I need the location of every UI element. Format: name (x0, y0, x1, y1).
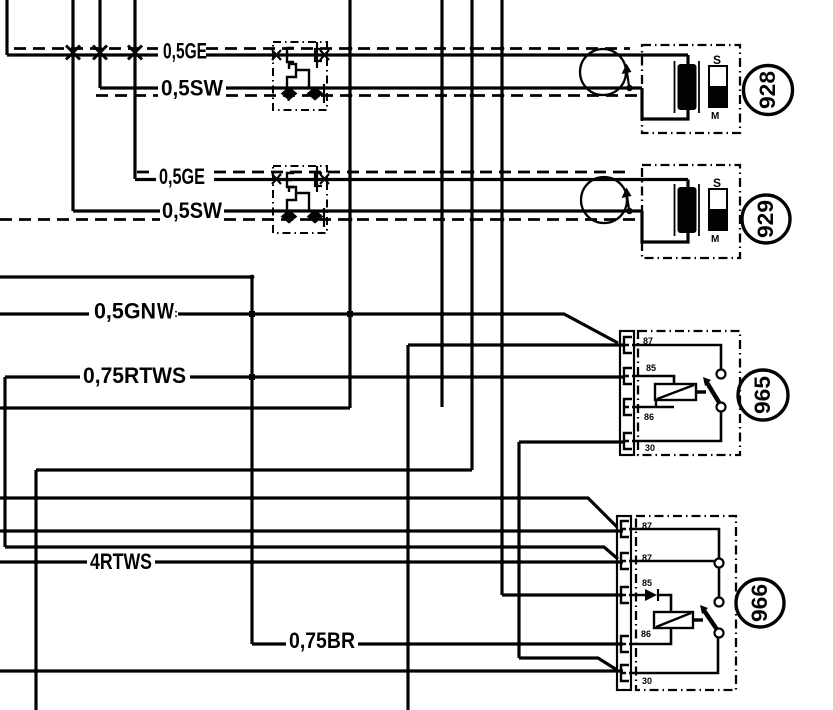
contact circle 965 top (717, 370, 726, 379)
terminal 966 pin3 (621, 587, 629, 603)
wire vertical bus L (x=36 from line470 to bottom) (34, 470, 37, 710)
connector SW1 diamond right (309, 88, 322, 99)
lever 966 (703, 609, 718, 631)
wire 0,5SW lower dashed (0, 218, 638, 221)
junction blob RTWS/bus E (249, 374, 255, 380)
connector GE1 female (287, 48, 294, 62)
wire 965 pin4 to pivot (632, 412, 721, 441)
contact circle 965 pivot (717, 403, 726, 412)
wire vertical bus A (x=7 top) (5, 0, 8, 55)
relay 966 (617, 516, 784, 690)
junction bulges at crossings (3, 46, 522, 673)
wire 966 pin1 to contact (629, 529, 719, 558)
thermo switch 929 (709, 189, 727, 230)
connector SW2 diamond left (283, 211, 296, 222)
connector box X2 (273, 166, 327, 233)
connector group X2 (lower pair) (272, 166, 329, 233)
svg-text:965: 965 (750, 376, 775, 414)
wire vertical bus C (x=100 top to SW1) (98, 0, 101, 88)
svg-text:W: W (157, 299, 174, 324)
wire 0,75RTWS (5, 375, 624, 378)
coil bar 965 (696, 390, 706, 394)
wire vertical bus H (x=472 top to line470) (470, 0, 473, 470)
connector group X1 (upper pair) (272, 42, 329, 110)
arrow 929 (626, 208, 632, 214)
component box 928 (642, 45, 740, 133)
junction blob GN/bus F (347, 311, 353, 317)
terminal 966 pin2 (621, 553, 629, 569)
coil bar 966 (693, 618, 703, 622)
designator circle 929 (742, 195, 790, 243)
svg-text:966: 966 (747, 584, 772, 622)
svg-text:87: 87 (642, 553, 652, 564)
contact circle 966 pivot (715, 629, 724, 638)
terminal 965 pin4 (624, 433, 632, 449)
connector GE2 female (287, 173, 294, 187)
wire 0,5GE upper solid (7, 55, 688, 66)
svg-text:M: M (711, 234, 719, 245)
svg-text:929: 929 (753, 200, 778, 238)
wire line442 to relay 965 pin30 (519, 440, 624, 443)
wire 0,5SW upper solid (100, 88, 688, 119)
loop symbol 928 (580, 49, 626, 95)
wire 0,5GE upper dashed (14, 47, 630, 50)
designator circle 928 (744, 66, 793, 115)
wire 0,75BR (252, 642, 623, 645)
thermo switch 928 (709, 66, 727, 107)
loop symbol 929 (581, 177, 627, 223)
wire line671 (0, 669, 623, 672)
wire vertical bus F (x=350 top to line407) (348, 0, 351, 408)
relay coil 965 (655, 384, 696, 400)
connector GE2 tick left (272, 174, 281, 184)
component box 929 (642, 165, 740, 258)
junction X at GE1/bus B (66, 46, 80, 60)
svg-text:0,5SW: 0,5SW (161, 76, 223, 101)
wire vertical bus M (x=5 RTWS drop) (3, 377, 6, 547)
svg-text:928: 928 (755, 71, 780, 109)
connector GE1 tick right (320, 50, 329, 60)
svg-text:85: 85 (642, 578, 653, 589)
heater element 928 (580, 45, 793, 133)
relay coil 966 (654, 612, 693, 628)
socket strip 966 (617, 516, 631, 690)
connector SW1 contact left (283, 90, 294, 101)
connector GE1 tick left (272, 50, 281, 60)
wire vertical bus J (x=408 from line345 to bottom) (406, 345, 409, 710)
designator circle 966 (736, 579, 784, 627)
svg-text:30: 30 (642, 676, 652, 687)
wire vertical bus G (x=442 top to line407) (440, 0, 443, 407)
wire vertical bus K (x=519 from line442 to line658) (517, 442, 520, 658)
heater element 929 (581, 165, 790, 258)
svg-text:86: 86 (641, 629, 651, 640)
svg-text:0,75BR: 0,75BR (289, 628, 355, 653)
svg-text:0,5GE: 0,5GE (159, 164, 205, 189)
terminal 965 pin3 (624, 399, 632, 415)
connector box X1 (273, 42, 327, 110)
element bar 928 (678, 64, 697, 110)
wire 966 pin2 to contact (629, 560, 714, 563)
terminal 966 pin4 (621, 636, 629, 652)
svg-text:S: S (713, 53, 721, 67)
wire vertical bus D (x=135 top to GE2) (133, 0, 136, 179)
wire 4RTWS (0, 560, 623, 563)
wire line277 top feed (0, 275, 252, 278)
wire 0,5GE lower solid (135, 180, 688, 190)
component box 965 (638, 331, 740, 455)
element plates 928 (675, 61, 700, 113)
wire 965 pin2 to coil (632, 376, 674, 384)
connector GE2 male (315, 166, 322, 192)
svg-text:0,5GE: 0,5GE (163, 39, 207, 64)
svg-text:30: 30 (645, 443, 655, 454)
connector SW2 bar (323, 208, 325, 227)
wire line547 (5, 547, 618, 559)
wire 965 pin1 to contact (632, 345, 721, 369)
junction X at GE1/bus C (93, 46, 107, 60)
svg-text:0,5SW: 0,5SW (162, 198, 222, 223)
wire line407 (0, 406, 350, 409)
svg-text:0,75RTWS: 0,75RTWS (83, 363, 186, 388)
element plates 929 (675, 184, 700, 236)
wire 0,5GE lower dashed (137, 171, 630, 174)
wire line658 (519, 658, 617, 670)
contact circle 966 top (715, 559, 724, 568)
wire line470 (36, 468, 472, 471)
svg-text:0,5GN: 0,5GN (94, 299, 156, 324)
connector SW1 bar (323, 84, 325, 103)
connector SW1 diamond left (283, 88, 296, 99)
terminal 966 pin5 (621, 665, 629, 681)
connector SW1 bump (287, 64, 309, 88)
component box 966 (636, 516, 736, 690)
wire 965 pin3 (632, 406, 674, 409)
wire 966 pin3 to coil (629, 595, 671, 612)
wire line498 (0, 498, 617, 527)
connector GE2 tick right (320, 174, 329, 184)
svg-text:86: 86 (644, 412, 654, 423)
lever 965 (706, 381, 720, 404)
svg-text:S: S (713, 176, 721, 190)
wire 966 pin5 to pivot (629, 638, 718, 673)
junction X at GE1/bus D (128, 46, 142, 60)
svg-text:85: 85 (646, 363, 657, 374)
relay 965 (620, 331, 788, 455)
wire vertical bus E (x=252 from line277 to BR) (250, 277, 253, 644)
contact circle 966 mid (715, 598, 724, 607)
contact link 966 (718, 568, 721, 597)
element bar 929 (678, 187, 697, 233)
svg-text:M: M (711, 111, 719, 122)
wire 0,5SW upper dashed (96, 94, 638, 97)
socket strip 965 (620, 331, 634, 455)
terminal 965 pin1 (624, 337, 632, 353)
wire 0,5GN (0, 314, 618, 343)
diode 966 (645, 589, 657, 601)
wire line595 (502, 593, 623, 596)
terminal 966 pin1 (621, 521, 629, 537)
svg-text::: : (174, 306, 178, 320)
wire line345 to relay 965 (408, 343, 624, 346)
wire 966 pin4 to coil (629, 628, 671, 644)
arrow 928 (626, 85, 632, 91)
wire line531 (0, 529, 623, 532)
connector SW2 diamond right (309, 211, 322, 222)
wire vertical bus I (x=502 top to line595) (500, 0, 503, 595)
svg-text:4RTWS: 4RTWS (90, 549, 152, 574)
connector SW2 bump (287, 187, 309, 211)
wire vertical bus B (x=73 top to SW2) (71, 0, 74, 211)
junction blob GN/bus E (249, 311, 255, 317)
connector GE1 male (315, 42, 322, 68)
terminal 965 pin2 (624, 368, 632, 384)
wire 0,5SW lower solid (73, 211, 688, 242)
designator circle 965 (738, 370, 788, 420)
svg-text:87: 87 (642, 521, 652, 532)
